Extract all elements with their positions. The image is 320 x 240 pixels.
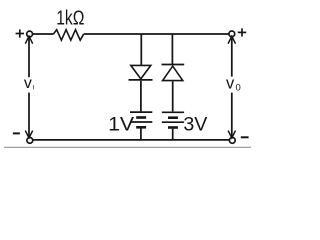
- svg-text:1V: 1V: [108, 114, 134, 136]
- wire (top rail: resistor to top-right terminal): [84, 33, 229, 35]
- node + (top-right output terminal, open circle): [229, 31, 235, 37]
- battery V2 3V: [162, 112, 184, 127]
- wire (diode D2 to battery V2): [172, 81, 174, 111]
- svg-text:3V: 3V: [183, 114, 207, 136]
- wire (left branch: top rail down to diode D1): [140, 34, 142, 65]
- svg-text:v: v: [226, 75, 235, 93]
- wire (right branch: top rail down to diode D2): [171, 34, 173, 64]
- label - (output minus sign): [241, 136, 249, 138]
- svg-text:I: I: [32, 85, 34, 92]
- label + (output plus sign): [238, 28, 246, 36]
- bottom page rule (gray hairline): [4, 146, 251, 148]
- wire (diode D1 to battery V1): [140, 81, 142, 112]
- wire (right port line, lower segment with down arrow): [228, 93, 235, 138]
- wire (right port line, upper segment with up arrow): [228, 36, 235, 76]
- svg-text:v: v: [24, 75, 32, 92]
- node - (bottom-right output terminal, open circle): [229, 138, 235, 144]
- label - (input minus sign): [13, 132, 20, 134]
- svg-text:1kΩ: 1kΩ: [56, 8, 84, 30]
- wire (battery V1 to bottom rail): [140, 129, 142, 140]
- battery V1 1V: [130, 112, 152, 127]
- svg-text:0: 0: [236, 83, 241, 94]
- wire (bottom rail: left terminal to right terminal): [33, 139, 230, 141]
- wire (left port line, lower segment with down arrow): [25, 93, 32, 138]
- resistor R1 1kOhm (zigzag): [53, 30, 83, 41]
- diode D1 (pointing down): [129, 65, 153, 80]
- label + (input plus sign): [16, 29, 24, 37]
- diode D2 (pointing up): [162, 65, 185, 81]
- wire (battery V2 to bottom rail): [172, 129, 174, 140]
- wire (left port line, upper segment with up arrow): [25, 36, 32, 77]
- node - (bottom-left input terminal, open circle): [27, 138, 33, 144]
- node + (top-left input terminal, open circle): [27, 31, 33, 37]
- wire (top-left terminal to resistor): [33, 33, 54, 35]
